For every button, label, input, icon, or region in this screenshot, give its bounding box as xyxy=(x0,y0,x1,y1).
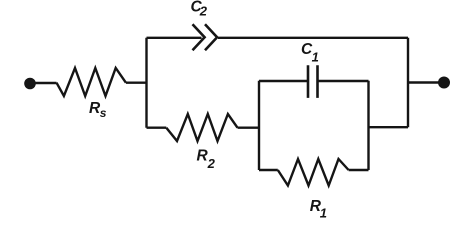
svg-text:2: 2 xyxy=(199,3,208,18)
label Rs xyxy=(89,100,107,120)
parallel box right edge xyxy=(367,81,369,170)
left terminal xyxy=(24,78,36,90)
box bottom edge right wire xyxy=(349,169,369,171)
right terminal xyxy=(438,77,450,89)
resistor R1 xyxy=(278,159,349,186)
svg-text:2: 2 xyxy=(207,156,216,171)
wire to right terminal xyxy=(408,81,439,83)
resistor Rs xyxy=(57,68,126,96)
wire top branch right of C2 xyxy=(218,37,408,39)
output wire box to right vertical xyxy=(369,126,409,128)
svg-text:1: 1 xyxy=(312,50,319,65)
label R1 xyxy=(310,198,327,220)
svg-text:1: 1 xyxy=(320,205,327,220)
wire node A to R2 xyxy=(147,126,167,128)
capacitor C2 (double-chevron symbol) xyxy=(193,24,218,50)
wire R2 to parallel box xyxy=(238,126,260,128)
label C1 xyxy=(301,41,319,65)
label C2 xyxy=(191,0,208,18)
label R2 xyxy=(197,148,216,171)
svg-text:s: s xyxy=(100,106,107,120)
box bottom edge left wire xyxy=(259,169,278,171)
parallel box left edge xyxy=(258,81,260,170)
box top edge left of C1 xyxy=(259,80,307,82)
right vertical wire xyxy=(407,38,409,127)
capacitor C1 xyxy=(308,65,318,98)
node A vertical wire (left branch riser) xyxy=(145,38,147,128)
resistor R2 xyxy=(166,114,237,141)
wire top branch left of C2 xyxy=(147,37,202,39)
wire Rs to node A xyxy=(126,81,147,83)
wire left terminal to Rs xyxy=(34,82,57,84)
box top edge right of C1 xyxy=(319,80,369,82)
